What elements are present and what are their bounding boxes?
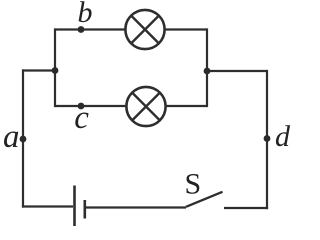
wire left junction to outer [22,69,55,71]
wire right inner vertical [206,28,208,107]
switch S lever [186,192,223,207]
wire battery to switch [86,206,186,208]
node c junction dot [78,103,85,110]
wire left outer vertical [22,69,24,207]
lamp L2 circle [126,87,165,126]
wire bottom left to battery [22,205,73,207]
svg-text:b: b [78,0,93,29]
lamp L1 circle [125,10,164,49]
node b junction dot [78,26,85,33]
left junction dot [52,67,59,74]
wire bottom branch horizontal c [55,105,207,107]
svg-text:a: a [3,119,20,155]
svg-text:S: S [185,168,202,201]
wire left inner vertical [54,28,56,107]
battery B1 long plate [73,186,76,227]
wire top branch horizontal b [55,28,207,30]
wire bottom right to switch contact [224,207,268,209]
wire right junction to outer [207,70,267,72]
battery B1 short plate [84,200,87,219]
node d dot [264,135,271,142]
svg-text:c: c [74,100,89,136]
wire right outer vertical [266,70,268,209]
lamp L1 cross [131,16,158,43]
right junction dot [204,68,211,75]
lamp L2 cross [132,93,159,120]
svg-text:d: d [275,120,291,153]
node a dot [20,136,27,143]
